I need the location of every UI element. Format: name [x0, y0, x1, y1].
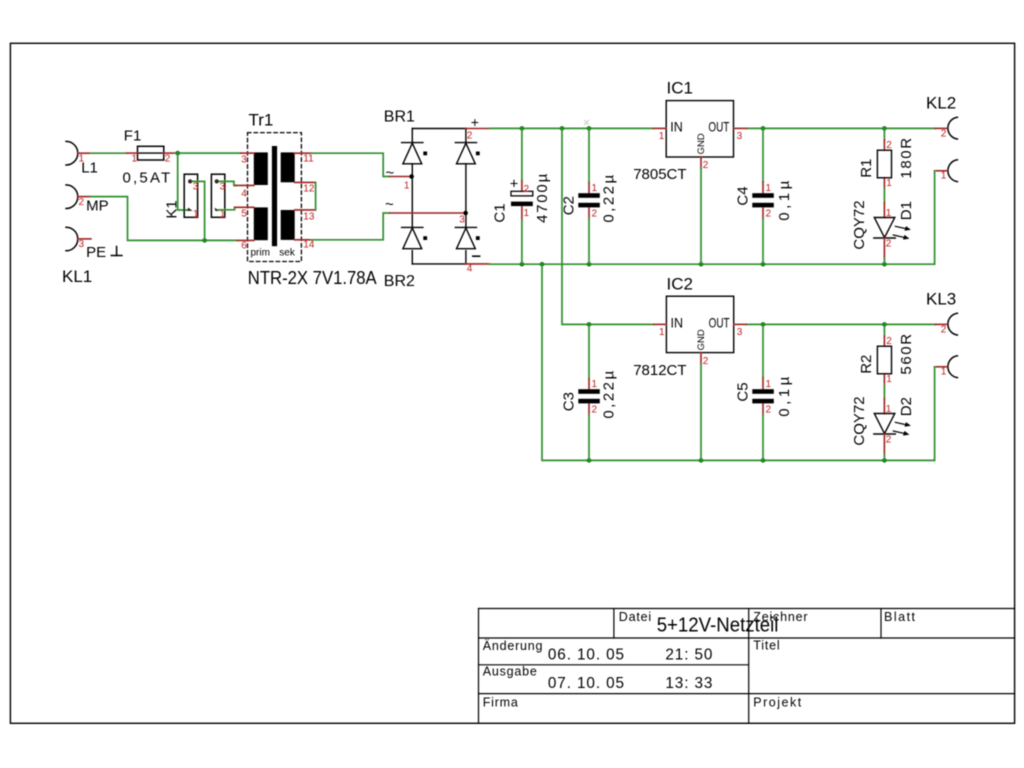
junction C3 bottom on GND2 rail — [587, 458, 592, 463]
svg-text:D1: D1 — [898, 201, 915, 220]
svg-text:4700µ: 4700µ — [534, 172, 551, 223]
svg-text:2: 2 — [766, 405, 772, 416]
svg-text:2: 2 — [886, 140, 892, 151]
fuse pin 1 — [126, 152, 137, 154]
svg-text:3: 3 — [737, 327, 743, 338]
bridge pin 3 ~ — [389, 212, 465, 214]
capacitor C2 plates — [578, 193, 600, 198]
resistor R2 wires — [883, 324, 885, 335]
svg-text:3: 3 — [241, 155, 247, 166]
IC2 pin 2 GND — [700, 353, 702, 365]
junction R1 top on +5V rail — [882, 126, 887, 131]
svg-text:1: 1 — [592, 183, 598, 194]
junction at fuse output — [175, 151, 180, 156]
svg-text:3: 3 — [459, 215, 465, 226]
svg-text:GND: GND — [696, 133, 707, 154]
svg-text:1: 1 — [766, 183, 772, 194]
wire gnd2 up to KL3 pin1 — [934, 367, 936, 461]
svg-text:C3: C3 — [560, 392, 577, 411]
Tr1 pin 3 — [241, 152, 254, 154]
svg-text:1: 1 — [220, 209, 226, 220]
svg-text:L1: L1 — [81, 160, 98, 177]
svg-text:2: 2 — [703, 160, 709, 171]
node +12V rail — [747, 323, 935, 325]
svg-text:0,22µ: 0,22µ — [600, 368, 617, 418]
Tr1 secondary winding lower — [281, 210, 295, 240]
junction D1 bottom on GND rail — [882, 262, 887, 267]
svg-text:1: 1 — [659, 131, 665, 142]
resistor R1 wires — [883, 128, 885, 139]
svg-text:BR2: BR2 — [384, 273, 415, 290]
capacitor C4 wires — [762, 128, 764, 181]
svg-text:2: 2 — [592, 209, 598, 220]
capacitor C3 plates — [578, 389, 600, 394]
svg-text:1: 1 — [193, 209, 199, 220]
svg-text:Änderung: Änderung — [483, 639, 544, 653]
LED D2 — [883, 398, 885, 413]
svg-text:2: 2 — [467, 131, 473, 142]
svg-text:4: 4 — [467, 264, 473, 275]
svg-text:180R: 180R — [898, 136, 915, 178]
svg-text:7805CT: 7805CT — [633, 166, 686, 183]
svg-text:Firma: Firma — [483, 696, 519, 710]
wire fuse to Tr1 pin3 — [175, 152, 241, 154]
svg-text:Ausgabe: Ausgabe — [483, 665, 538, 679]
svg-text:IC2: IC2 — [667, 275, 693, 294]
KL3 pin 2 stub — [935, 323, 946, 325]
Tr1 pin 4 — [235, 184, 254, 186]
svg-text:13: 13 — [303, 212, 315, 223]
resistor R2 body — [877, 346, 891, 374]
junction C4 bottom on GND rail — [761, 262, 766, 267]
svg-text:07. 10. 05: 07. 10. 05 — [548, 675, 625, 692]
bridge rectifier BR1/BR2 frame wires — [412, 129, 466, 264]
svg-text:2: 2 — [886, 434, 892, 445]
K1 box2 pin1 arrow — [215, 208, 220, 211]
KL2 pin 1 stub — [935, 170, 947, 172]
Tr1 primary winding lower — [254, 207, 268, 240]
Tr1 pin 11 — [295, 152, 312, 154]
svg-text:1: 1 — [524, 208, 530, 219]
D1 arrows — [893, 226, 908, 238]
capacitor C5 plates — [752, 389, 774, 394]
K1 box2 pin3 dot — [215, 179, 219, 183]
bridge pin 4 - — [466, 263, 490, 265]
wire K1 box1 pin3 down to MP net — [190, 181, 205, 240]
bridge pin 1 ~ — [389, 176, 411, 178]
svg-text:Titel: Titel — [753, 639, 780, 653]
svg-text:D2: D2 — [898, 397, 915, 416]
svg-text:~: ~ — [385, 196, 394, 213]
svg-text:2: 2 — [766, 209, 772, 220]
svg-text:2: 2 — [165, 154, 171, 165]
svg-text:~: ~ — [386, 165, 395, 182]
wire K1 box2 pin3 to Tr1 pin4 — [217, 181, 236, 185]
Tr1 pin 12 — [295, 181, 316, 183]
diode bottom-left — [402, 227, 423, 248]
IC1 pin 1 — [653, 127, 666, 129]
svg-text:0,1µ: 0,1µ — [776, 177, 793, 221]
svg-text:2: 2 — [886, 336, 892, 347]
svg-text:NTR-2X 7V1.78A: NTR-2X 7V1.78A — [248, 267, 377, 288]
svg-text:5: 5 — [241, 209, 247, 220]
transformer Tr1 dashed box — [248, 133, 302, 262]
svg-text:3: 3 — [193, 181, 199, 192]
wire K1 box2 pin1 to Tr1 pin5 — [219, 207, 237, 210]
svg-text:IC1: IC1 — [667, 79, 693, 98]
svg-text:R1: R1 — [858, 159, 875, 178]
fuse pin 2 — [164, 152, 175, 154]
wire Tr1 pin11 to bridge ~1 — [312, 153, 390, 176]
svg-text:2: 2 — [703, 356, 709, 367]
junction C2 top on +raw rail — [587, 126, 592, 131]
wire Tr1 pin12 to pin13 jog — [315, 182, 317, 210]
svg-text:PE: PE — [86, 244, 106, 261]
junction GND drop on GND rail — [540, 262, 545, 267]
svg-text:1: 1 — [592, 379, 598, 390]
svg-text:0,22µ: 0,22µ — [600, 172, 617, 222]
junction C4 top on +5V rail — [761, 126, 766, 131]
Tr1 pin 6 — [237, 239, 254, 241]
junction C1 top on +raw rail — [520, 126, 525, 131]
junction IC2 GND on GND2 rail — [699, 458, 704, 463]
svg-text:0,1µ: 0,1µ — [776, 373, 793, 417]
svg-text:1: 1 — [404, 180, 410, 191]
capacitor C5 wires — [762, 324, 764, 377]
junction D2 bottom on GND2 rail — [882, 458, 887, 463]
svg-text:12: 12 — [303, 183, 315, 194]
switch K1 contact box 1 — [184, 174, 197, 217]
node GND1 rail — [490, 263, 935, 265]
IC1 box — [666, 101, 733, 157]
node +raw top rail — [490, 127, 654, 129]
svg-text:1: 1 — [886, 178, 892, 189]
svg-text:prim: prim — [251, 248, 270, 259]
svg-text:Tr1: Tr1 — [249, 111, 274, 130]
title block outline — [479, 609, 1015, 724]
fuse F1 — [138, 146, 164, 160]
junction C5 bottom on GND2 rail — [761, 458, 766, 463]
bridge pin 2 + — [466, 128, 490, 130]
IC2 pin 1 — [654, 323, 667, 325]
junction C2 bottom on GND rail — [587, 262, 592, 267]
connector KL1 pin L1 arc — [66, 141, 78, 250]
svg-text:KL2: KL2 — [926, 94, 956, 113]
svg-text:21: 50: 21: 50 — [665, 647, 713, 664]
junction IC1 GND on GND rail — [699, 262, 704, 267]
junction K1 return on MP net — [202, 238, 207, 243]
svg-text:K1: K1 — [164, 200, 181, 218]
capacitor C4 plates — [752, 193, 774, 198]
svg-text:C4: C4 — [734, 186, 751, 205]
Tr1 pin 14 — [295, 239, 312, 241]
K1 box1 pin1 arrow — [187, 208, 192, 211]
svg-text:CQY72: CQY72 — [851, 200, 868, 249]
Tr1 primary winding upper — [254, 152, 268, 185]
svg-text:3: 3 — [79, 239, 85, 250]
svg-text:2: 2 — [941, 129, 947, 140]
svg-text:Datei: Datei — [619, 610, 652, 624]
svg-text:sek: sek — [279, 248, 296, 259]
KL3 pin 1 stub — [935, 366, 947, 368]
earth symbol — [111, 247, 122, 256]
svg-text:BR1: BR1 — [384, 108, 415, 125]
svg-text:0,5AT: 0,5AT — [123, 170, 173, 187]
K1 box1 pin3 dot — [188, 179, 192, 183]
svg-text:2: 2 — [524, 184, 530, 195]
svg-text:1: 1 — [766, 379, 772, 390]
capacitor C1 wires — [521, 128, 523, 180]
IC1 pin 2 GND — [700, 157, 702, 169]
svg-text:14: 14 — [303, 240, 315, 251]
svg-text:11: 11 — [303, 154, 314, 165]
svg-text:06. 10. 05: 06. 10. 05 — [548, 647, 625, 664]
junction C3 top on +12V rail — [587, 322, 592, 327]
svg-text:GND: GND — [696, 329, 707, 350]
svg-text:1: 1 — [132, 153, 138, 164]
svg-text:560R: 560R — [898, 332, 915, 374]
svg-text:KL3: KL3 — [926, 290, 956, 309]
connector KL3 — [948, 313, 958, 377]
svg-text:Blatt: Blatt — [884, 610, 917, 624]
svg-text:C5: C5 — [734, 382, 751, 401]
origin cross C2 — [584, 120, 588, 124]
capacitor C3 wires — [588, 324, 590, 378]
LED D1 — [883, 202, 885, 217]
KL2 pin 2 stub — [935, 127, 946, 129]
svg-text:2: 2 — [941, 325, 947, 336]
wire gnd1 up to KL2 pin1 — [934, 171, 936, 264]
svg-text:R2: R2 — [858, 355, 875, 374]
svg-text:13: 33: 13: 33 — [665, 675, 713, 692]
D2 arrows — [893, 422, 908, 434]
Tr1 core bar — [272, 146, 277, 246]
wire junction down to K1 pin1 — [178, 153, 189, 210]
svg-text:3: 3 — [737, 131, 743, 142]
diode top-left — [402, 143, 423, 164]
svg-text:Projekt: Projekt — [753, 696, 802, 710]
junction C1 bottom on GND rail — [520, 262, 525, 267]
IC2 box — [666, 296, 733, 352]
capacitor C2 wires — [588, 128, 590, 182]
junction R2 top on +12V rail — [882, 322, 887, 327]
svg-text:1: 1 — [941, 171, 947, 182]
svg-text:+: + — [510, 177, 518, 193]
junction C5 top on +12V rail — [761, 322, 766, 327]
svg-text:OUT: OUT — [708, 118, 729, 134]
svg-text:3: 3 — [220, 181, 226, 192]
svg-text:C1: C1 — [492, 203, 509, 222]
wire MP to Tr1 pin6 — [91, 197, 237, 241]
svg-text:OUT: OUT — [709, 314, 730, 330]
Tr1 pin 5 — [235, 206, 254, 208]
svg-text:2: 2 — [592, 405, 598, 416]
svg-text:1: 1 — [886, 374, 892, 385]
wire Tr1 pin14 to bridge ~3 — [312, 213, 390, 240]
svg-text:1: 1 — [659, 327, 665, 338]
svg-text:4: 4 — [241, 189, 247, 200]
svg-text:5+12V-Netzteil: 5+12V-Netzteil — [657, 615, 779, 637]
IC1 pin 3 — [734, 127, 747, 129]
svg-text:KL1: KL1 — [62, 267, 92, 286]
wire gnd1 to gnd2 — [542, 264, 935, 460]
title block labels — [483, 610, 917, 710]
wire raw to IC2 input — [562, 128, 654, 324]
connector KL2 — [948, 117, 958, 181]
svg-text:CQY72: CQY72 — [851, 396, 868, 445]
svg-text:MP: MP — [86, 198, 109, 215]
svg-text:7812CT: 7812CT — [633, 362, 686, 379]
junction IC2 feed on +raw rail — [560, 126, 565, 131]
svg-text:2: 2 — [886, 238, 892, 249]
svg-text:C2: C2 — [560, 196, 577, 215]
Tr1 secondary winding upper — [281, 152, 295, 182]
svg-text:6: 6 — [241, 240, 247, 251]
switch K1 contact box 2 — [211, 174, 224, 217]
IC2 pin 3 — [734, 323, 747, 325]
resistor R1 body — [877, 150, 891, 178]
Tr1 pin 13 — [295, 209, 316, 211]
wire L1 to fuse — [91, 152, 126, 154]
capacitor C1 plates — [511, 191, 533, 196]
svg-text:IN: IN — [671, 314, 684, 330]
diode top-right — [455, 143, 476, 164]
svg-text:F1: F1 — [124, 128, 142, 145]
svg-text:IN: IN — [670, 118, 683, 134]
svg-text:+: + — [471, 114, 479, 130]
svg-text:2: 2 — [79, 197, 85, 208]
diode bottom-right — [455, 227, 476, 248]
KL1 pin stubs — [78, 153, 91, 239]
svg-text:1: 1 — [941, 367, 947, 378]
